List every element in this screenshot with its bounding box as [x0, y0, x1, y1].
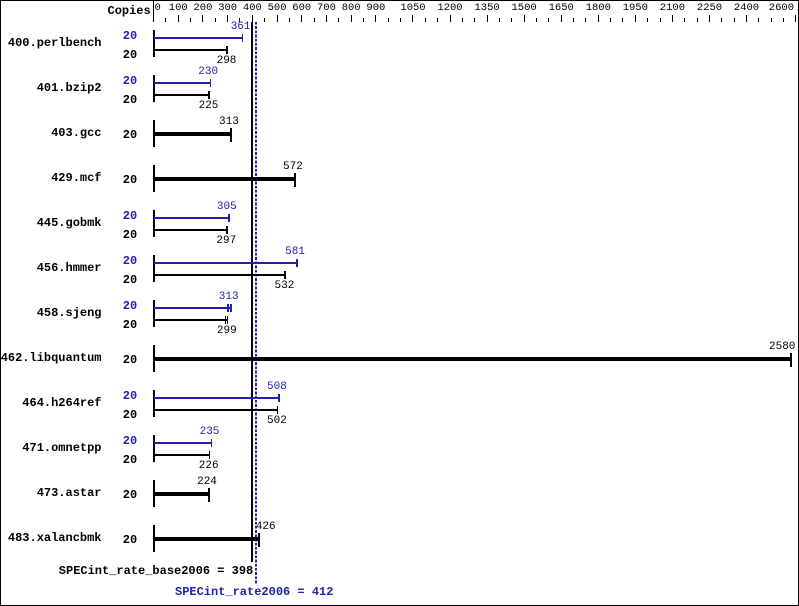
copies 20 (base) 401.bzip2	[123, 94, 137, 106]
label 462.libquantum	[1, 352, 102, 364]
row 458.sjeng	[0, 0, 1, 1]
base value 2580	[769, 342, 795, 353]
axis ticks	[0, 0, 1, 1]
label 483.xalancbmk	[8, 532, 102, 544]
copies 20 (base) 400.perlbench	[123, 49, 137, 61]
min run tick (peak) 458.sjeng	[227, 304, 228, 312]
copies 20 (base) 458.sjeng	[123, 319, 137, 331]
label 429.mcf	[51, 172, 101, 184]
peak bar 445.gobmk = 305	[154, 217, 229, 219]
base bar 400.perlbench = 298	[154, 49, 228, 51]
bar start cap 464.h264ref	[153, 390, 155, 417]
base bar 456.hmmer = 532	[154, 274, 286, 276]
bar start cap 473.astar	[153, 480, 155, 507]
row 471.omnetpp	[0, 0, 1, 1]
copies 20 429.mcf	[123, 174, 137, 186]
bar start cap 456.hmmer	[153, 255, 155, 282]
bar start cap 445.gobmk	[153, 210, 155, 237]
label 445.gobmk	[37, 217, 102, 229]
copies 20 (peak) 458.sjeng	[123, 300, 137, 312]
copies 20 403.gcc	[123, 129, 137, 141]
row 403.gcc	[0, 0, 1, 1]
peak bar 464.h264ref = 508	[154, 397, 280, 399]
base value 299	[217, 326, 237, 337]
base bar 458.sjeng = 299	[154, 319, 228, 321]
axis line	[153, 1, 154, 22]
base value 313	[219, 117, 239, 128]
bar start cap 400.perlbench	[153, 30, 155, 57]
base value 426	[256, 522, 276, 533]
row 401.bzip2	[0, 0, 1, 1]
bar start cap 462.libquantum	[153, 345, 155, 372]
bar start cap 403.gcc	[153, 120, 155, 147]
copies 20 (base) 464.h264ref	[123, 409, 137, 421]
row 429.mcf	[0, 0, 1, 1]
base value 297	[216, 236, 236, 247]
base bar 401.bzip2 = 225	[154, 94, 210, 96]
base bar 429.mcf = 572	[154, 177, 295, 181]
bar start cap 429.mcf	[153, 165, 155, 192]
summary SPECint_rate_base2006	[59, 565, 253, 577]
row 483.xalancbmk	[0, 0, 1, 1]
base bar 462.libquantum = 2580	[154, 357, 792, 361]
base value 225	[199, 101, 219, 112]
copies 20 (peak) 400.perlbench	[123, 30, 137, 42]
SPECint_rate2006 reference line (412, dotted)	[255, 22, 257, 584]
copies 20 (base) 445.gobmk	[123, 229, 137, 241]
label 401.bzip2	[37, 82, 102, 94]
label 403.gcc	[51, 127, 101, 139]
copies 20 (peak) 471.omnetpp	[123, 435, 137, 447]
bar start cap 471.omnetpp	[153, 435, 155, 462]
base bar 464.h264ref = 502	[154, 409, 278, 411]
label 464.h264ref	[22, 397, 101, 409]
row 456.hmmer	[0, 0, 1, 1]
copies 20 462.libquantum	[123, 354, 137, 366]
label 458.sjeng	[37, 307, 102, 319]
peak value 508	[267, 382, 287, 393]
axis labels	[0, 0, 1, 1]
label 473.astar	[37, 487, 102, 499]
peak value 313	[219, 292, 239, 303]
peak bar 401.bzip2 = 230	[154, 82, 211, 84]
copies 20 483.xalancbmk	[123, 534, 137, 546]
row 462.libquantum	[0, 0, 1, 1]
bar start cap 401.bzip2	[153, 75, 155, 102]
base bar 483.xalancbmk = 426	[154, 537, 259, 541]
label 471.omnetpp	[22, 442, 101, 454]
bar start cap 483.xalancbmk	[153, 525, 155, 552]
copies 20 473.astar	[123, 489, 137, 501]
copies 20 (peak) 401.bzip2	[123, 75, 137, 87]
base value 298	[217, 56, 237, 67]
SPECint_rate_base2006 reference line (398)	[251, 22, 253, 562]
row 445.gobmk	[0, 0, 1, 1]
summary SPECint_rate2006	[175, 586, 333, 598]
base value 502	[267, 416, 287, 427]
base value 224	[197, 477, 217, 488]
peak value 305	[217, 202, 237, 213]
base value 226	[199, 461, 219, 472]
base value 572	[283, 162, 303, 173]
peak value 361	[231, 22, 251, 33]
peak value 581	[285, 247, 305, 258]
label 400.perlbench	[8, 37, 102, 49]
peak value 235	[200, 427, 220, 438]
min run tick (base) 458.sjeng	[225, 316, 226, 324]
peak bar 471.omnetpp = 235	[154, 442, 212, 444]
peak bar 458.sjeng = 313	[154, 307, 231, 309]
peak value 230	[198, 67, 218, 78]
copies header	[108, 5, 151, 17]
copies 20 (base) 456.hmmer	[123, 274, 137, 286]
copies 20 (peak) 445.gobmk	[123, 210, 137, 222]
row 473.astar	[0, 0, 1, 1]
base bar 473.astar = 224	[154, 492, 209, 496]
base value 532	[275, 281, 295, 292]
peak bar 456.hmmer = 581	[154, 262, 298, 264]
base bar 471.omnetpp = 226	[154, 454, 210, 456]
label 456.hmmer	[37, 262, 102, 274]
copies 20 (base) 471.omnetpp	[123, 454, 137, 466]
base bar 403.gcc = 313	[154, 132, 231, 136]
peak bar 400.perlbench = 361	[154, 37, 243, 39]
base bar 445.gobmk = 297	[154, 229, 227, 231]
copies 20 (peak) 456.hmmer	[123, 255, 137, 267]
row 400.perlbench	[0, 0, 1, 1]
bar start cap 458.sjeng	[153, 300, 155, 327]
row 464.h264ref	[0, 0, 1, 1]
copies 20 (peak) 464.h264ref	[123, 390, 137, 402]
